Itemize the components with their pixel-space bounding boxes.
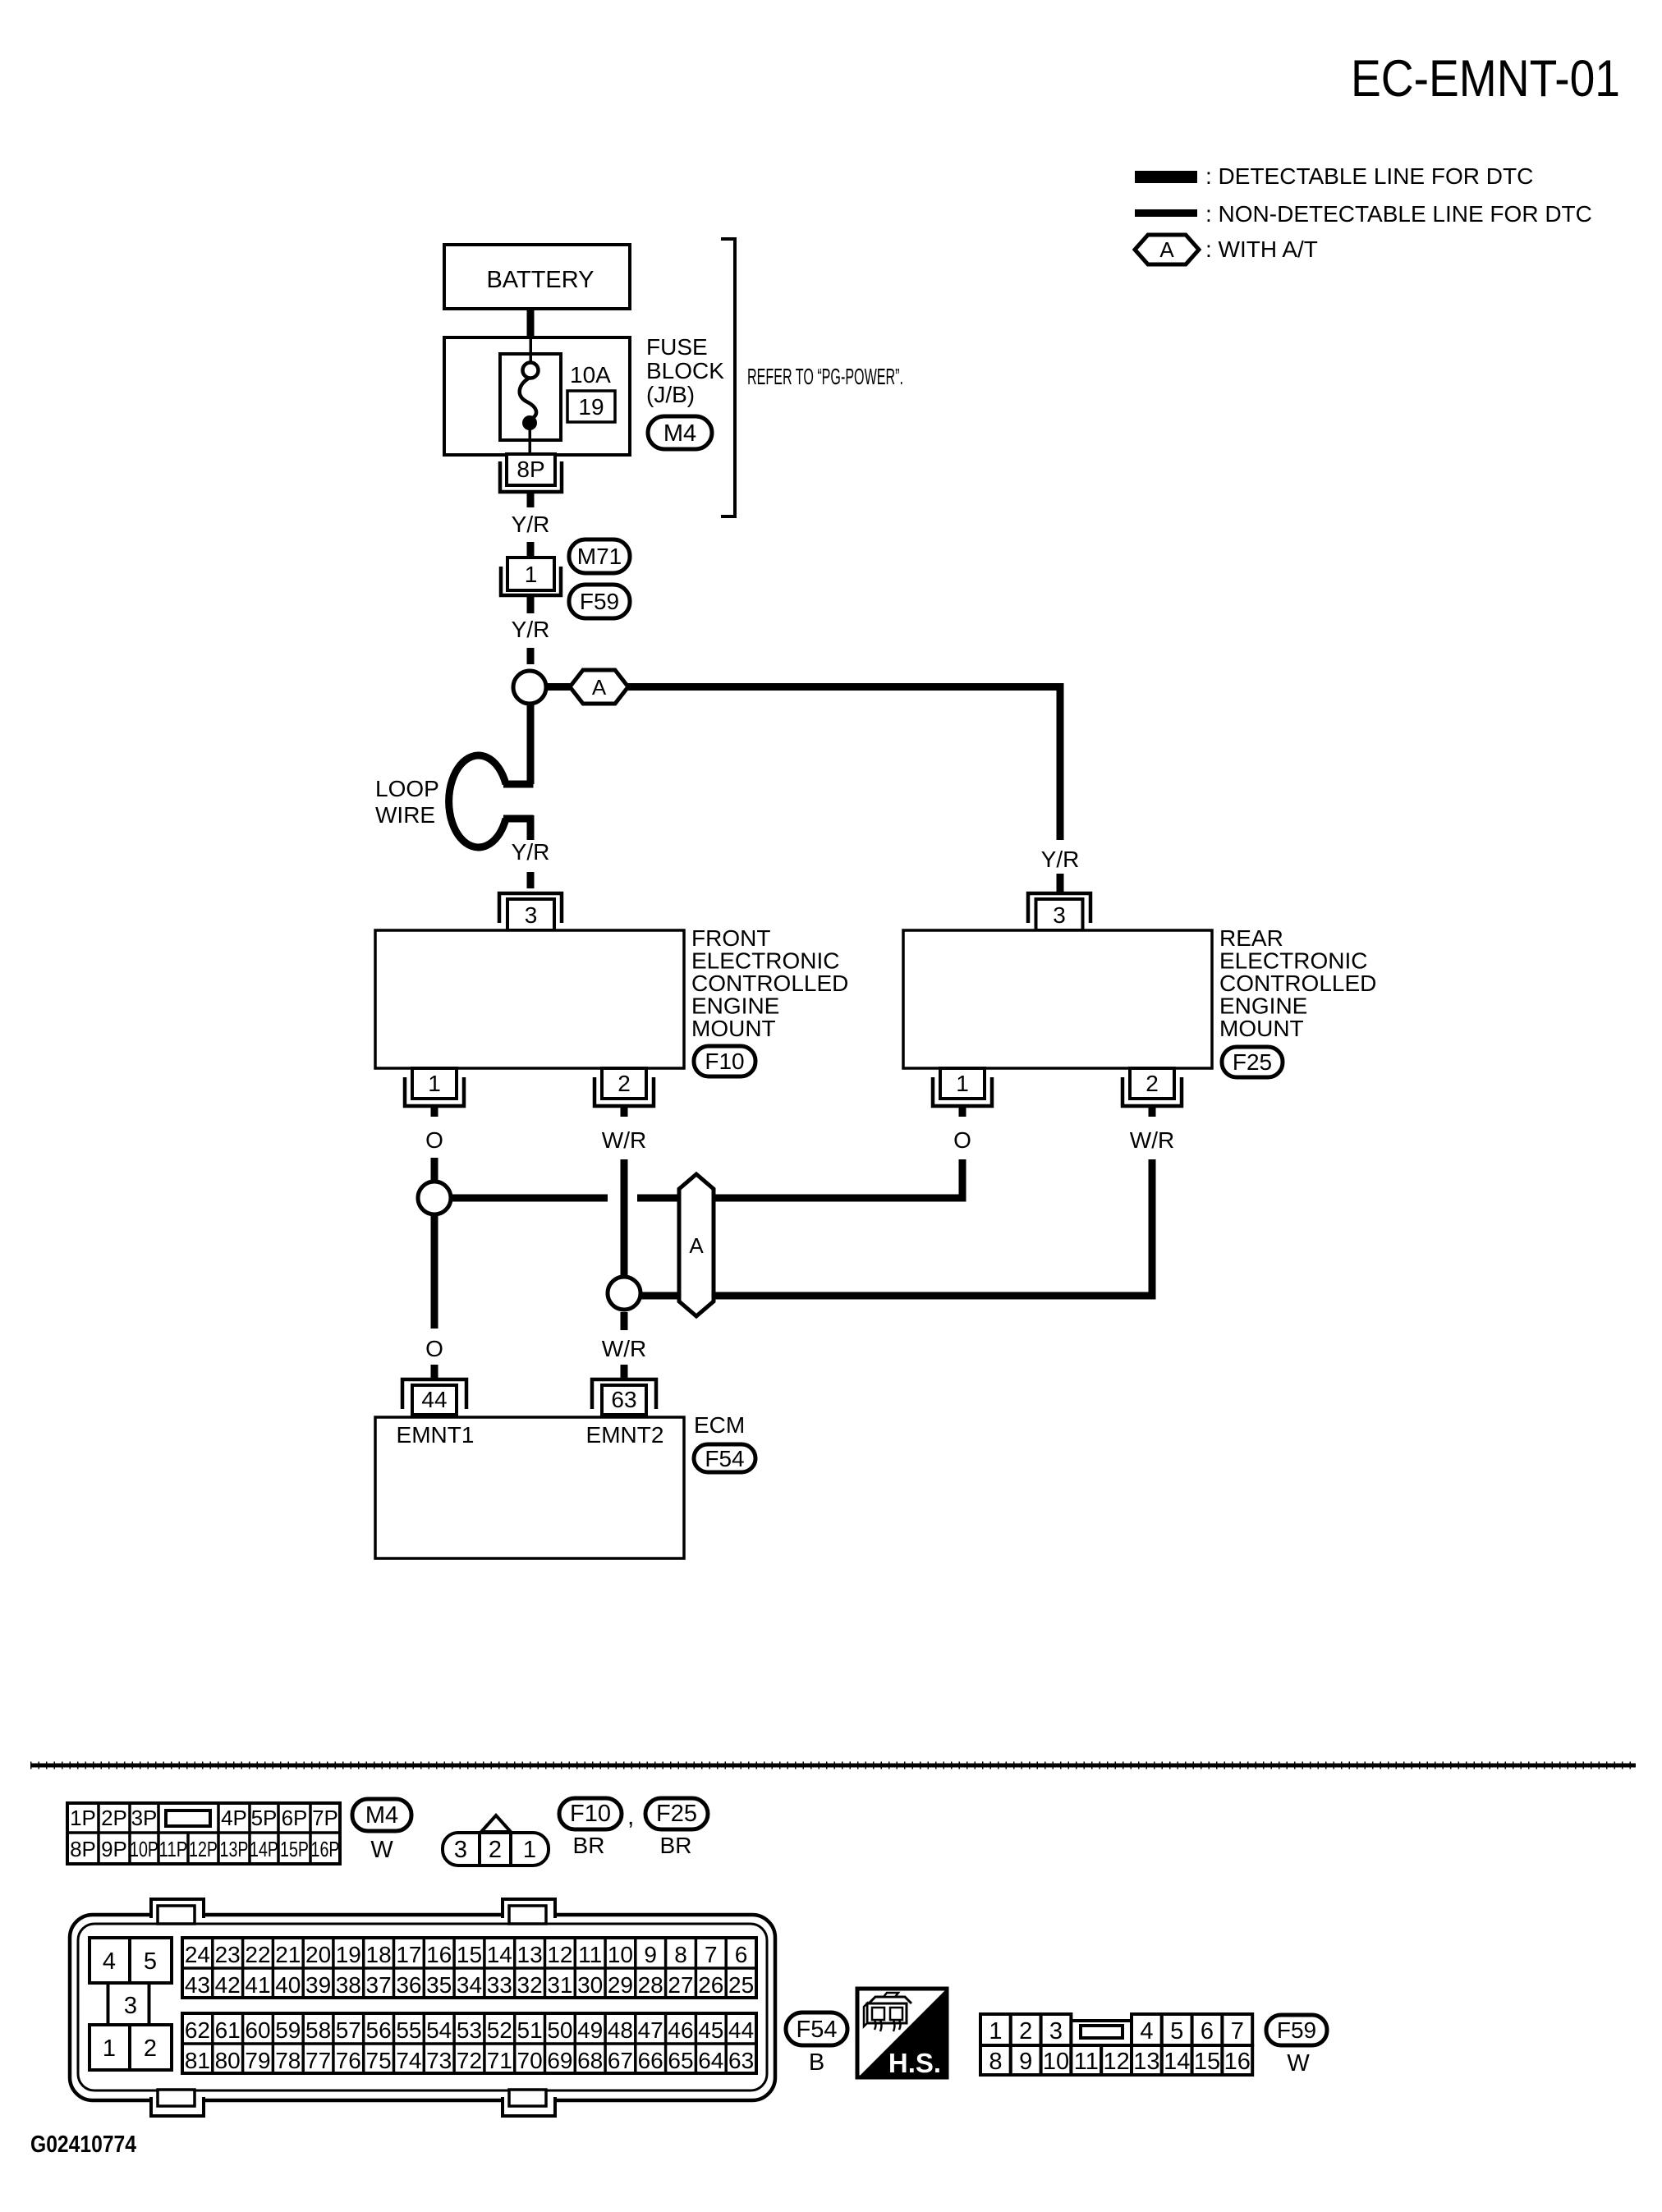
svg-text:ELECTRONIC: ELECTRONIC: [691, 948, 839, 974]
svg-text:59: 59: [275, 2017, 301, 2043]
F54 upper pin grid: [182, 1938, 756, 1998]
svg-text:36: 36: [396, 1972, 421, 1998]
svg-text:O: O: [425, 1127, 443, 1153]
svg-text:71: 71: [487, 2048, 512, 2073]
svg-text:3: 3: [1049, 2018, 1063, 2044]
wire battery to fuse block: [527, 307, 535, 339]
svg-text:3: 3: [454, 1837, 467, 1863]
legend label WITH A/T: [1205, 236, 1318, 262]
svg-text:A: A: [592, 675, 607, 700]
svg-text:46: 46: [668, 2017, 693, 2043]
label ECM: [694, 1412, 745, 1438]
svg-text:5: 5: [1170, 2018, 1183, 2044]
svg-text:60: 60: [245, 2017, 270, 2043]
connector oval F59: [569, 585, 630, 618]
label 10A: [570, 362, 611, 388]
svg-text:58: 58: [305, 2017, 331, 2043]
svg-text:73: 73: [426, 2048, 452, 2073]
rear mount pin 1 connector: [933, 1068, 992, 1106]
svg-text:20: 20: [305, 1942, 331, 1967]
hexagon A with A/T branch: [570, 670, 628, 704]
svg-text:48: 48: [608, 2017, 633, 2043]
svg-text:5: 5: [144, 1948, 157, 1975]
terminal name EMNT2: [586, 1422, 664, 1448]
svg-text:1: 1: [523, 1837, 536, 1863]
svg-text:65: 65: [668, 2048, 693, 2073]
svg-text:M4: M4: [663, 420, 696, 447]
wire dash to front pin 3: [527, 872, 535, 888]
wire label W/R front: [602, 1127, 646, 1153]
connector oval M4: [648, 416, 712, 449]
connector view 3-2-1 F10/F25: [443, 1815, 549, 1866]
svg-text:W/R: W/R: [602, 1127, 646, 1153]
svg-text:74: 74: [396, 2048, 421, 2073]
svg-text:5P: 5P: [251, 1806, 278, 1830]
svg-text:37: 37: [366, 1972, 392, 1998]
svg-text:9: 9: [644, 1942, 657, 1967]
svg-text:16: 16: [1224, 2049, 1251, 2075]
svg-text:13: 13: [1133, 2049, 1159, 2075]
svg-text:44: 44: [421, 1387, 447, 1412]
svg-text:F59: F59: [1277, 2017, 1316, 2043]
connector oval F10 bottom: [559, 1798, 622, 1829]
junction node circle center: [608, 1277, 640, 1310]
svg-text:61: 61: [215, 2017, 241, 2043]
svg-text:F54: F54: [797, 2017, 838, 2043]
svg-text:14: 14: [487, 1942, 512, 1967]
svg-text:10A: 10A: [570, 362, 611, 388]
svg-text:29: 29: [608, 1972, 633, 1998]
svg-text:6: 6: [735, 1942, 748, 1967]
svg-text:EC-EMNT-01: EC-EMNT-01: [1351, 50, 1620, 108]
svg-text:BR: BR: [573, 1833, 605, 1858]
svg-text:F10: F10: [705, 1049, 744, 1074]
fuse block M4 box: [444, 337, 630, 455]
wire rear O down to line 1: [959, 1159, 966, 1202]
svg-text:40: 40: [275, 1972, 301, 1998]
svg-text:3: 3: [525, 902, 538, 928]
svg-text:H.S.: H.S.: [888, 2048, 941, 2078]
svg-text:8P: 8P: [70, 1837, 96, 1861]
svg-text:10: 10: [608, 1942, 633, 1967]
wire dash front O to junction: [431, 1158, 438, 1181]
color code W for M4: [370, 1837, 393, 1863]
svg-text:80: 80: [215, 2048, 241, 2073]
svg-text:51: 51: [517, 2017, 543, 2043]
svg-text:(J/B): (J/B): [646, 382, 695, 407]
svg-text:B: B: [809, 2049, 824, 2076]
svg-text:77: 77: [305, 2048, 331, 2073]
color code BR for F25: [660, 1833, 692, 1858]
svg-text:6P: 6P: [282, 1806, 308, 1830]
svg-text:12: 12: [547, 1942, 572, 1967]
svg-text:28: 28: [638, 1972, 663, 1998]
svg-text:MOUNT: MOUNT: [1219, 1016, 1304, 1041]
svg-text:4: 4: [103, 1948, 116, 1975]
front electronic controlled engine mount box F10: [375, 930, 684, 1068]
svg-text:W/R: W/R: [602, 1336, 646, 1361]
svg-text:M71: M71: [577, 544, 622, 569]
ECM box F54: [375, 1417, 684, 1558]
svg-text:W/R: W/R: [1130, 1127, 1174, 1153]
svg-text:12: 12: [1103, 2049, 1129, 2075]
connector 8P: [500, 454, 562, 492]
front mount pin 2 connector: [595, 1068, 654, 1106]
svg-text:21: 21: [275, 1942, 301, 1967]
svg-text:14: 14: [1164, 2049, 1190, 2075]
svg-text:75: 75: [366, 2048, 392, 2073]
svg-text:: NON-DETECTABLE LINE FOR DTC: : NON-DETECTABLE LINE FOR DTC: [1205, 201, 1592, 227]
wire label O front: [425, 1127, 443, 1153]
svg-text:8: 8: [674, 1942, 687, 1967]
bracket refer note: [721, 239, 735, 516]
svg-text:45: 45: [698, 2017, 723, 2043]
label LOOP WIRE: [375, 776, 439, 828]
svg-text:10P: 10P: [130, 1837, 158, 1861]
front mount pin 3 connector: [499, 893, 562, 930]
wire label W/R rear: [1130, 1127, 1174, 1153]
wire junction down to loop: [527, 704, 535, 784]
wire right riser to rear pin 3: [1057, 683, 1064, 840]
wire label O rear: [953, 1127, 971, 1153]
svg-text:7: 7: [705, 1942, 718, 1967]
svg-text:M4: M4: [365, 1802, 398, 1829]
svg-text:BLOCK: BLOCK: [646, 358, 724, 383]
svg-text:1: 1: [103, 2035, 116, 2062]
svg-text:BATTERY: BATTERY: [486, 267, 594, 293]
svg-text:63: 63: [611, 1387, 636, 1412]
svg-text:,: ,: [627, 1803, 634, 1830]
legend label NON-DETECTABLE LINE FOR DTC: [1205, 201, 1592, 227]
svg-text:52: 52: [487, 2017, 512, 2043]
wire label O to ECM: [425, 1336, 443, 1361]
wire dash below center junction: [621, 1312, 628, 1330]
svg-text:1P: 1P: [70, 1806, 96, 1830]
wire below left junction: [431, 1214, 438, 1329]
wire label Y/R: [512, 512, 550, 537]
svg-text:ENGINE: ENGINE: [1219, 994, 1307, 1019]
color code W for F59: [1287, 2050, 1310, 2077]
color code BR for F10: [573, 1833, 605, 1858]
legend detectable line bar: [1135, 171, 1197, 183]
wire label Y/R: [512, 839, 550, 865]
connector oval F10: [694, 1046, 755, 1076]
svg-text:63: 63: [728, 2048, 754, 2073]
wire label W/R to ECM: [602, 1336, 646, 1361]
legend label DETECTABLE LINE FOR DTC: [1205, 163, 1533, 189]
wire junction to hexagon: [546, 683, 570, 691]
svg-text:12P: 12P: [189, 1837, 218, 1861]
svg-text:24: 24: [185, 1942, 210, 1967]
junction node A circle: [513, 671, 546, 704]
ECM pin 63 connector: [592, 1379, 656, 1415]
ECM pin 44 connector: [402, 1379, 466, 1415]
svg-text:78: 78: [275, 2048, 301, 2073]
joint connector 1 M71/F59: [501, 558, 561, 595]
svg-text:1: 1: [525, 562, 538, 587]
connector view F59 grid: [980, 2014, 1252, 2075]
svg-text:4: 4: [1140, 2018, 1153, 2044]
svg-text:33: 33: [487, 1972, 512, 1998]
svg-text:30: 30: [577, 1972, 603, 1998]
svg-text:3: 3: [124, 1993, 137, 2019]
figure number G02410774: [30, 2132, 136, 2158]
connector oval F54: [694, 1444, 755, 1472]
svg-text:Y/R: Y/R: [1041, 847, 1080, 872]
svg-text:11P: 11P: [159, 1837, 188, 1861]
H.S. connector icon: [864, 1993, 911, 2031]
svg-text:19: 19: [336, 1942, 361, 1967]
svg-text:10: 10: [1043, 2049, 1069, 2075]
svg-text:A: A: [689, 1233, 704, 1258]
svg-text:38: 38: [336, 1972, 361, 1998]
svg-text:53: 53: [457, 2017, 482, 2043]
svg-text:O: O: [953, 1127, 971, 1153]
svg-text:9P: 9P: [101, 1837, 127, 1861]
svg-text:26: 26: [698, 1972, 723, 1998]
label REFER TO PG-POWER: [747, 364, 903, 389]
wire rear W/R down to line 2: [1149, 1159, 1156, 1300]
svg-text:27: 27: [668, 1972, 693, 1998]
wire dash to pin 63: [621, 1365, 628, 1378]
wire dash to pin 44: [431, 1365, 438, 1378]
wire label Y/R right: [1041, 847, 1080, 872]
svg-text:49: 49: [577, 2017, 603, 2043]
svg-text:15P: 15P: [280, 1837, 309, 1861]
svg-text:67: 67: [608, 2048, 633, 2073]
svg-text:43: 43: [185, 1972, 210, 1998]
connector view M4 grid: [67, 1803, 340, 1864]
horizontal junction line 1 left segment: [451, 1195, 608, 1202]
connector oval M71: [569, 539, 630, 573]
svg-text:8: 8: [989, 2049, 1002, 2075]
wire front W/R down: [621, 1159, 628, 1277]
svg-text:23: 23: [215, 1942, 241, 1967]
svg-text:7P: 7P: [312, 1806, 338, 1830]
ECM connector F54 housing: [70, 1915, 775, 2100]
junction node circle left: [418, 1182, 451, 1214]
wire into fuse: [530, 337, 533, 365]
svg-text:REAR: REAR: [1219, 925, 1283, 951]
svg-text:MOUNT: MOUNT: [691, 1016, 776, 1041]
label FUSE BLOCK (J/B): [646, 334, 724, 407]
svg-text:44: 44: [728, 2017, 754, 2043]
svg-text:2P: 2P: [101, 1806, 127, 1830]
connector oval F25 bottom: [645, 1798, 708, 1829]
svg-text:Y/R: Y/R: [512, 839, 550, 865]
svg-text:FRONT: FRONT: [691, 925, 770, 951]
svg-text:42: 42: [215, 1972, 241, 1998]
svg-text:3P: 3P: [131, 1806, 158, 1830]
svg-text:18: 18: [366, 1942, 392, 1967]
wire dash to rear pin 3: [1057, 874, 1064, 892]
fuse number 19 box: [567, 391, 615, 422]
connector oval F54 bottom: [786, 2012, 847, 2045]
svg-text:F25: F25: [656, 1801, 697, 1827]
svg-text:ENGINE: ENGINE: [691, 994, 779, 1019]
svg-text:FUSE: FUSE: [646, 334, 708, 360]
svg-text:9: 9: [1019, 2049, 1032, 2075]
svg-text:8P: 8P: [517, 457, 544, 482]
svg-text:1: 1: [428, 1071, 441, 1096]
fuse 10A element: [520, 363, 539, 455]
front mount pin 1 connector: [405, 1068, 464, 1106]
svg-text:66: 66: [638, 2048, 663, 2073]
F54 pins 4 5 3 1 2 cluster: [90, 1938, 172, 2070]
rear mount pin 3 connector: [1028, 893, 1090, 930]
wire below joint connector: [527, 597, 535, 613]
svg-text:2: 2: [1019, 2018, 1032, 2044]
svg-text:32: 32: [517, 1972, 543, 1998]
svg-text:ELECTRONIC: ELECTRONIC: [1219, 948, 1367, 974]
battery: [444, 245, 630, 309]
svg-text:F10: F10: [570, 1801, 611, 1827]
svg-text:13: 13: [517, 1942, 543, 1967]
svg-text:15: 15: [457, 1942, 482, 1967]
svg-text:15: 15: [1194, 2049, 1220, 2075]
svg-text:62: 62: [185, 2017, 210, 2043]
svg-text:31: 31: [547, 1972, 572, 1998]
svg-text:2: 2: [489, 1837, 502, 1863]
svg-text:68: 68: [577, 2048, 603, 2073]
separator dashed line: [30, 1764, 1636, 1768]
svg-text:11: 11: [1074, 2049, 1099, 2075]
legend hexagon A symbol: [1135, 235, 1199, 264]
svg-text:3: 3: [1053, 902, 1066, 928]
svg-text:41: 41: [245, 1972, 270, 1998]
svg-text:17: 17: [396, 1942, 421, 1967]
harness side H.S. symbol: [857, 1989, 947, 2078]
svg-text:39: 39: [305, 1972, 331, 1998]
svg-text:BR: BR: [660, 1833, 692, 1858]
svg-text:2: 2: [1145, 1071, 1159, 1096]
svg-text:F25: F25: [1233, 1049, 1272, 1075]
wire label Y/R: [512, 617, 550, 642]
F54 housing tabs: [151, 1899, 555, 2116]
svg-text:WIRE: WIRE: [375, 802, 435, 828]
M4 grid pin labels: [70, 1806, 339, 1861]
svg-text:Y/R: Y/R: [512, 512, 550, 537]
svg-text:64: 64: [698, 2048, 723, 2073]
svg-text:47: 47: [638, 2017, 663, 2043]
svg-text:22: 22: [245, 1942, 270, 1967]
F59 pin numbers: [989, 2018, 1251, 2075]
svg-text:EMNT2: EMNT2: [586, 1422, 664, 1448]
svg-text:Y/R: Y/R: [512, 617, 550, 642]
svg-text:: DETECTABLE LINE FOR DTC: : DETECTABLE LINE FOR DTC: [1205, 163, 1533, 189]
F54 lower pin grid: [182, 2013, 756, 2073]
svg-text:81: 81: [185, 2048, 210, 2073]
svg-text:LOOP: LOOP: [375, 776, 439, 801]
svg-text:G02410774: G02410774: [30, 2132, 136, 2158]
svg-text:16P: 16P: [311, 1837, 340, 1861]
svg-text:2: 2: [618, 1071, 631, 1096]
horizontal junction line 1 right segment: [637, 1195, 966, 1202]
terminal name EMNT1: [397, 1422, 475, 1448]
svg-text:W: W: [1287, 2050, 1310, 2077]
svg-text:25: 25: [728, 1972, 754, 1998]
svg-text:50: 50: [547, 2017, 572, 2043]
svg-text:72: 72: [457, 2048, 482, 2073]
svg-text:EMNT1: EMNT1: [397, 1422, 475, 1448]
svg-text:70: 70: [517, 2048, 543, 2073]
wire loop down: [527, 815, 535, 840]
svg-text:34: 34: [457, 1972, 482, 1998]
hexagon A vertical with A/T: [679, 1174, 714, 1316]
svg-text:4P: 4P: [221, 1806, 247, 1830]
wire top horizontal run to rear mount: [628, 683, 1060, 691]
rear mount pin 2 connector: [1123, 1068, 1182, 1106]
connector oval F59 bottom: [1266, 2015, 1327, 2045]
svg-text:19: 19: [578, 394, 604, 420]
wire stubs below pins: [431, 1106, 1156, 1117]
comma separator: [627, 1803, 634, 1830]
legend non-detectable line bar: [1135, 209, 1197, 217]
svg-text:11: 11: [578, 1942, 602, 1967]
svg-text:16: 16: [426, 1942, 452, 1967]
label front mount: [691, 925, 848, 1041]
svg-text:79: 79: [245, 2048, 270, 2073]
wire dash to junction: [527, 648, 535, 664]
svg-text:13P: 13P: [220, 1837, 249, 1861]
svg-text:: WITH A/T: : WITH A/T: [1205, 236, 1318, 262]
svg-text:55: 55: [396, 2017, 421, 2043]
svg-text:O: O: [425, 1336, 443, 1361]
svg-text:W: W: [370, 1837, 393, 1863]
svg-text:REFER TO “PG-POWER”.: REFER TO “PG-POWER”.: [747, 364, 903, 389]
title EC-EMNT-01: [1351, 50, 1620, 108]
horizontal junction line 2: [640, 1292, 1156, 1300]
svg-text:7: 7: [1231, 2018, 1244, 2044]
svg-text:54: 54: [426, 2017, 452, 2043]
svg-text:35: 35: [426, 1972, 452, 1998]
svg-text:1: 1: [956, 1071, 969, 1096]
svg-text:14P: 14P: [250, 1837, 278, 1861]
svg-text:57: 57: [336, 2017, 361, 2043]
svg-text:6: 6: [1201, 2018, 1214, 2044]
svg-text:ECM: ECM: [694, 1412, 745, 1438]
fuse cell box: [500, 354, 561, 440]
svg-text:CONTROLLED: CONTROLLED: [691, 971, 848, 996]
svg-text:F59: F59: [580, 589, 619, 614]
svg-text:2: 2: [144, 2035, 157, 2062]
svg-text:A: A: [1159, 237, 1174, 262]
wire 8P down: [527, 493, 535, 507]
svg-text:69: 69: [547, 2048, 572, 2073]
svg-text:CONTROLLED: CONTROLLED: [1219, 971, 1376, 996]
svg-text:56: 56: [366, 2017, 392, 2043]
wire to joint connector: [527, 542, 535, 558]
connector oval M4 bottom: [352, 1799, 411, 1831]
rear electronic controlled engine mount box F25: [903, 930, 1212, 1068]
label rear mount: [1219, 925, 1376, 1041]
svg-text:1: 1: [989, 2018, 1002, 2044]
loop wire symbol: [449, 755, 534, 847]
svg-text:F54: F54: [705, 1446, 744, 1471]
svg-text:76: 76: [336, 2048, 361, 2073]
connector oval F25: [1222, 1047, 1283, 1077]
color code B for F54: [809, 2049, 824, 2076]
